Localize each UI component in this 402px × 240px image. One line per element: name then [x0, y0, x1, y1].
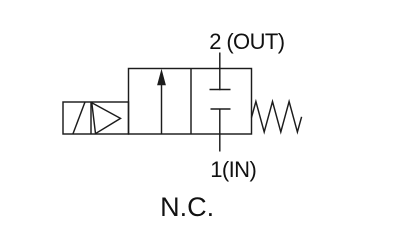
pilot triangle: [92, 103, 121, 134]
svg-text:N.C.: N.C.: [160, 192, 214, 222]
valve position divider: [190, 69, 192, 135]
return spring: [252, 102, 302, 133]
wire: port 1 (IN) lead: [219, 109, 221, 152]
solenoid coil diagonal: [73, 102, 85, 134]
closed seat: top bar (port 2): [210, 89, 231, 91]
solenoid box divider: [90, 102, 92, 134]
wire: port 2 (OUT) lead: [219, 53, 221, 91]
valve body outline: [129, 69, 252, 135]
solenoid actuator box: [63, 102, 129, 134]
svg-text:2 (OUT): 2 (OUT): [209, 29, 284, 54]
flow arrow head: [157, 69, 166, 86]
svg-text:1(IN): 1(IN): [210, 157, 256, 182]
closed seat: bottom bar (port 1): [211, 108, 231, 110]
flow arrow stem (energized position): [161, 82, 163, 134]
